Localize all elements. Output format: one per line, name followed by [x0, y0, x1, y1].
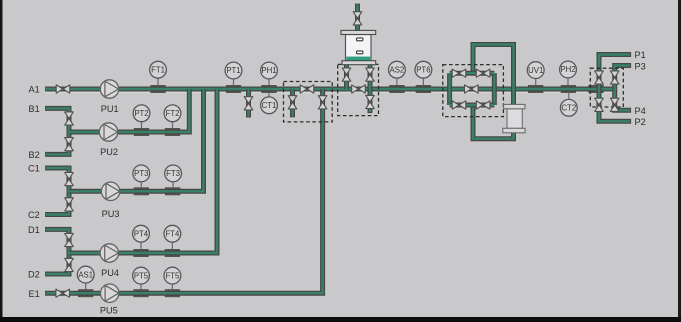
- connection tick UV1: [528, 85, 543, 93]
- valve V manifold top-left: [452, 69, 466, 77]
- column filter: [503, 104, 525, 132]
- valve V tank out right: [366, 68, 375, 81]
- svg-text:P4: P4: [635, 106, 646, 116]
- instrument stem PT2: [141, 122, 143, 129]
- instrument stem PT4: [140, 242, 142, 249]
- instrument stem AS1: [85, 283, 87, 290]
- wire tank box drain stub: [368, 89, 373, 113]
- valve V-C2: [65, 198, 74, 211]
- instrument CT2: [560, 99, 577, 116]
- wire inlet B1: [45, 108, 69, 132]
- connection tick PT1: [226, 85, 241, 93]
- wire manifold left connector: [447, 73, 452, 105]
- wire tank T1 right outlet: [368, 65, 373, 90]
- instrument CT1: [261, 97, 278, 114]
- dashed enclosure tank valves: [338, 64, 379, 115]
- instrument PT4: [133, 225, 150, 242]
- connection tick AS2: [389, 85, 404, 93]
- dashed enclosure sampling valves: [284, 82, 333, 122]
- valve V sampling box: [300, 85, 314, 93]
- wire manifold top branch: [450, 71, 495, 76]
- wire manifold bottom branch: [450, 103, 495, 108]
- instrument stem PT6: [422, 78, 424, 85]
- connection tick FT5: [165, 289, 180, 297]
- connection tick PH2/CT2: [561, 85, 576, 93]
- wire inlet E1 / pump PU5 line riser: [45, 89, 323, 293]
- svg-text:FT2: FT2: [166, 109, 180, 118]
- connection tick FT1: [150, 85, 165, 93]
- valve V-B1: [65, 112, 74, 125]
- valve V-E1 inlet: [56, 289, 70, 297]
- connection tick PT4: [133, 249, 148, 257]
- connection tick FT2: [165, 128, 180, 136]
- valve V-D1: [65, 233, 74, 246]
- instrument PT1: [225, 62, 242, 79]
- wire tank T1 vent line: [355, 4, 360, 31]
- wire outlet loop P3-P4: [615, 66, 631, 111]
- svg-text:PT5: PT5: [134, 271, 149, 280]
- instrument stem CT1: [268, 93, 270, 97]
- svg-text:PT2: PT2: [134, 109, 148, 118]
- instrument stem FT1: [157, 78, 159, 85]
- valve V-A1 inlet: [56, 85, 70, 93]
- wire inlet C1: [45, 168, 69, 191]
- valve V manifold center: [465, 85, 479, 93]
- instrument PT2: [133, 105, 150, 122]
- valve V tank drain: [366, 95, 375, 108]
- wire column bypass bottom loop: [473, 105, 514, 139]
- instrument stem FT2: [172, 122, 174, 129]
- wire inlet D2: [45, 253, 69, 274]
- svg-text:CT1: CT1: [262, 101, 277, 110]
- wire manifold right connector: [492, 73, 497, 105]
- svg-text:P3: P3: [635, 61, 646, 71]
- instrument FT3: [165, 165, 182, 182]
- right border: [678, 0, 681, 322]
- instrument PT5: [133, 267, 150, 284]
- instrument FT2: [164, 105, 181, 122]
- instrument stem PH1: [268, 79, 270, 86]
- instrument stem CT2: [568, 93, 570, 100]
- svg-text:PU3: PU3: [102, 209, 120, 219]
- svg-text:FT3: FT3: [166, 169, 180, 178]
- instrument PT3: [133, 165, 150, 182]
- svg-text:CT2: CT2: [561, 104, 576, 113]
- svg-text:D2: D2: [28, 270, 40, 280]
- wire column bypass top loop: [473, 45, 514, 105]
- wire drain stub in sampling box: [290, 89, 295, 117]
- svg-text:AS2: AS2: [390, 65, 405, 74]
- svg-text:P1: P1: [635, 50, 646, 60]
- valve V sampling left: [288, 96, 297, 109]
- svg-text:FT4: FT4: [165, 229, 180, 238]
- valve V-C1: [65, 173, 74, 186]
- connection tick PT3: [134, 187, 149, 195]
- svg-text:PU2: PU2: [100, 147, 118, 157]
- valve V tank box: [352, 85, 366, 93]
- bottom border: [0, 317, 681, 322]
- wire pump PU3 discharge: [69, 89, 204, 191]
- left border: [0, 0, 3, 322]
- svg-text:PT3: PT3: [134, 169, 148, 178]
- pump PU3: [101, 182, 119, 200]
- valve V-P1: [595, 71, 604, 84]
- connection tick PT6: [416, 85, 431, 93]
- svg-text:PT4: PT4: [134, 229, 149, 238]
- tank T1: [341, 30, 376, 64]
- valve V drain: [244, 97, 253, 110]
- pump PU4: [100, 244, 118, 262]
- connection tick outlet header: [588, 85, 603, 93]
- instrument stem AS2: [396, 78, 398, 85]
- svg-text:C1: C1: [28, 163, 40, 173]
- connection tick PH1/CT1: [261, 85, 276, 93]
- dashed enclosure bypass manifold: [443, 65, 504, 117]
- svg-text:FT1: FT1: [151, 65, 165, 74]
- svg-text:UV1: UV1: [528, 66, 543, 75]
- svg-text:PH2: PH2: [560, 65, 575, 74]
- instrument AS2: [389, 61, 406, 78]
- svg-text:PT1: PT1: [226, 66, 240, 75]
- instrument stem FT3: [172, 182, 174, 188]
- valve V manifold top-right: [476, 69, 490, 77]
- instrument stem UV1: [535, 79, 537, 86]
- wire main header: [45, 87, 615, 92]
- wire inlet C2: [45, 191, 69, 214]
- instrument stem PH2: [567, 78, 569, 86]
- svg-text:FT5: FT5: [165, 271, 180, 280]
- pipe highlight under main header: [46, 91, 614, 93]
- wire pump PU4 discharge: [69, 89, 217, 253]
- svg-text:D1: D1: [28, 225, 40, 235]
- wire outlet loop P1-P2: [599, 55, 631, 122]
- instrument FT4: [164, 225, 181, 242]
- svg-text:PH1: PH1: [261, 66, 276, 75]
- valve V-D2: [65, 258, 74, 271]
- instrument AS1: [77, 266, 94, 283]
- valve V-P3: [610, 71, 619, 84]
- svg-text:A1: A1: [29, 85, 40, 95]
- valve V tank out left: [342, 68, 351, 81]
- instrument stem FT5: [171, 284, 173, 290]
- instrument stem PT1: [233, 79, 235, 86]
- connection tick FT4: [165, 249, 180, 257]
- svg-text:AS1: AS1: [78, 270, 93, 279]
- pump PU2: [99, 123, 117, 141]
- connection tick AS1: [78, 289, 93, 297]
- valve V sampling right: [318, 96, 327, 109]
- svg-text:PT6: PT6: [416, 65, 430, 74]
- svg-text:E1: E1: [29, 289, 40, 299]
- pump PU5: [101, 284, 119, 302]
- instrument UV1: [527, 62, 544, 79]
- pump PU1: [100, 80, 118, 98]
- instrument FT5: [164, 267, 181, 284]
- valve V-P2: [595, 98, 604, 111]
- instrument stem PT5: [140, 284, 142, 290]
- wire pump PU2 discharge: [69, 89, 189, 132]
- svg-text:PU1: PU1: [101, 104, 119, 114]
- svg-text:P2: P2: [635, 117, 646, 127]
- wire tank T1 left outlet: [344, 65, 349, 90]
- connection tick PT5: [133, 289, 148, 297]
- svg-text:PU4: PU4: [101, 268, 119, 278]
- wire inlet B2: [45, 132, 69, 154]
- instrument FT1: [150, 61, 167, 78]
- instrument PH1: [261, 62, 278, 79]
- wire drain stub after PT1: [246, 89, 251, 118]
- instrument PH2: [560, 61, 577, 78]
- instrument PT6: [415, 61, 432, 78]
- svg-text:B2: B2: [29, 150, 40, 160]
- valve V-P4: [610, 98, 619, 111]
- valve V tank vent: [353, 12, 362, 25]
- valve V manifold bottom-right: [476, 101, 490, 109]
- wire inlet D1: [45, 229, 69, 253]
- connection tick FT3: [165, 187, 180, 195]
- valve V-B2: [65, 138, 74, 151]
- svg-text:C2: C2: [28, 210, 40, 220]
- svg-text:PU5: PU5: [100, 305, 118, 315]
- svg-text:B1: B1: [29, 104, 40, 114]
- valve V manifold bottom-left: [452, 101, 466, 109]
- instrument stem PT3: [140, 182, 142, 188]
- instrument stem FT4: [171, 242, 173, 249]
- dashed enclosure outlet valves: [590, 68, 623, 107]
- connection tick PT2: [134, 128, 149, 136]
